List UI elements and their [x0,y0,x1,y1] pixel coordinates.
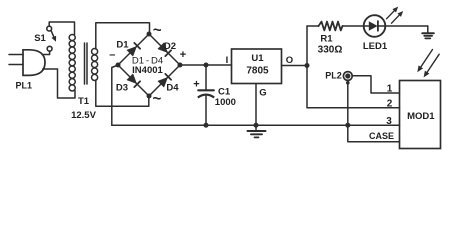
plug PL1 [9,54,23,56]
wire plug top to switch [42,51,50,54]
svg-text:3: 3 [386,116,392,127]
svg-text:S1: S1 [34,33,46,44]
wire secondary top to bridge [96,23,150,49]
svg-text:~: ~ [153,22,162,39]
wire LED1 to ground [385,25,428,27]
ground symbol top right [427,26,429,33]
resistor R1 [307,25,319,27]
connector PL2 [343,72,352,81]
svg-text:D1: D1 [116,40,129,51]
svg-text:G: G [259,87,266,98]
wire +5V up to R1 [306,26,308,66]
transformer core [84,43,86,84]
svg-text:I: I [226,55,229,66]
svg-text:O: O [286,55,293,66]
svg-text:PL1: PL1 [16,80,33,90]
wire switch to transformer primary top [49,22,74,35]
svg-text:D2: D2 [164,41,176,52]
wire PL2 tip to MOD1 pin 1 [352,76,399,93]
wire PL2 sleeve down [347,80,349,125]
wire secondary bottom to bridge [96,80,149,106]
svg-text:D4: D4 [166,83,179,94]
transformer T1 secondary winding [92,48,98,54]
LED1 emission arrows [387,11,395,19]
svg-text:PL2: PL2 [325,71,342,81]
node bridge top (AC) [147,32,152,37]
node PL2 sleeve junction [345,123,350,128]
node bridge left (-) [116,63,121,68]
wire U1 ground pin [255,84,257,126]
module MOD1 box [400,81,441,149]
svg-text:1000: 1000 [215,97,236,108]
diode D3 [118,65,149,96]
svg-text:~: ~ [153,90,162,107]
capacitor C1 [205,65,207,90]
wire +5V to MOD1 pin 2 [307,66,400,108]
transformer T1 primary winding [69,34,75,40]
svg-text:LED1: LED1 [363,41,388,52]
node bridge bottom (AC) [147,94,152,99]
wire bridge plus to U1 input [180,64,232,66]
node +5V junction [305,63,310,68]
svg-text:+: + [193,79,199,91]
node bridge right (+) [178,63,183,68]
svg-text:1: 1 [387,84,393,95]
svg-text:T1: T1 [78,96,90,107]
diode D2 [149,34,180,65]
ground symbol below U1 [248,130,266,132]
svg-text:U1: U1 [251,53,264,64]
svg-text:7805: 7805 [246,66,269,77]
node U1 ground junction [254,123,259,128]
diode D4 [149,65,180,96]
svg-text:+: + [180,49,186,61]
svg-text:IN4001: IN4001 [132,65,163,76]
diode D1 [118,34,149,65]
MOD1 IR input arrows [421,50,433,67]
svg-text:CASE: CASE [369,131,394,141]
LED1 [364,15,386,37]
svg-text:2: 2 [387,99,393,110]
node C1 bottom junction [204,123,209,128]
node PL2 sleeve dot [346,81,350,85]
node C1 top junction [204,63,209,68]
wire plug bottom to primary bottom [43,69,75,98]
svg-text:C1: C1 [218,87,231,98]
wire U1 output [282,65,308,67]
regulator U1 box [232,49,282,84]
svg-text:MOD1: MOD1 [407,111,435,122]
switch S1 [47,26,52,31]
svg-text:D3: D3 [116,83,128,94]
wire CASE [348,125,400,142]
svg-text:R1: R1 [320,34,333,45]
svg-text:330Ω: 330Ω [318,45,343,56]
svg-text:–: – [109,49,115,61]
svg-text:12.5V: 12.5V [71,110,96,121]
ground rail to MOD1 pin 3 [112,124,400,126]
wire bridge minus to ground rail [112,65,118,125]
